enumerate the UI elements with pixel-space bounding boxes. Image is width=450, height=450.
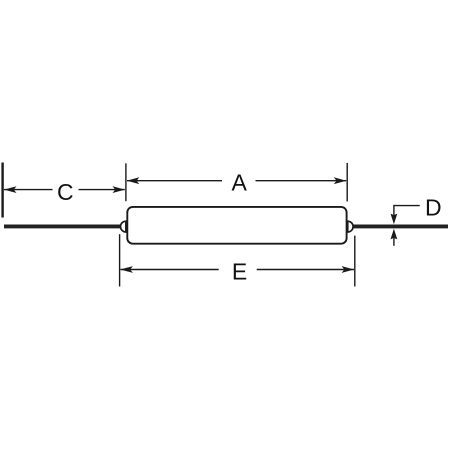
- dimension C line left segment: [4, 189, 53, 191]
- dimension D lower stem: [393, 236, 395, 246]
- dimension E right arrowhead: [342, 266, 355, 273]
- dimension A line left segment: [127, 180, 222, 182]
- left end cap nub: [121, 221, 126, 232]
- dimension D upper stem: [393, 205, 395, 216]
- dimension D lower arrowhead (up): [391, 229, 398, 240]
- extension line right of body (A): [346, 163, 348, 202]
- extension line right (E): [354, 236, 356, 287]
- dimension D upper arrowhead (down): [391, 214, 398, 225]
- svg-text:C: C: [57, 179, 74, 205]
- dimension E line left segment: [121, 269, 219, 271]
- dimension C line right segment: [79, 189, 125, 191]
- dimension C left arrowhead: [4, 186, 17, 193]
- dimension E line right segment: [257, 269, 354, 271]
- svg-text:E: E: [232, 258, 247, 284]
- dimension A right arrowhead: [334, 177, 347, 184]
- svg-text:D: D: [425, 195, 442, 221]
- dimension E left arrowhead: [120, 266, 132, 273]
- dimension A left arrowhead: [127, 177, 140, 184]
- dimension A line right segment: [256, 180, 347, 182]
- lead wire right: [353, 224, 448, 228]
- extension line left (E): [119, 234, 121, 286]
- dimension C right arrowhead: [113, 186, 126, 193]
- right end cap nub: [348, 221, 353, 232]
- lead end tick (C datum): [1, 163, 3, 218]
- svg-text:A: A: [232, 170, 248, 196]
- component body: [127, 207, 346, 244]
- lead wire left: [4, 224, 121, 228]
- dimension D leader horizontal: [394, 205, 420, 207]
- extension line left of body (A/C): [125, 163, 127, 201]
